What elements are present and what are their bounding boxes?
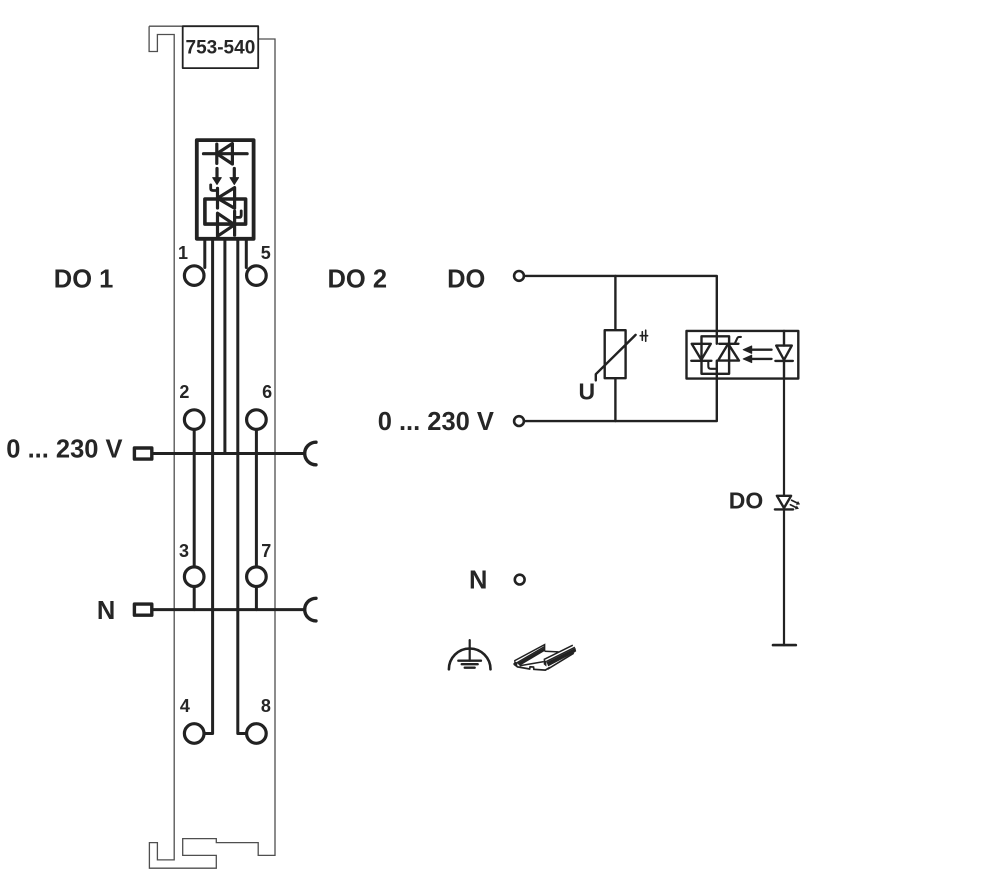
svg-text:U: U — [579, 378, 596, 404]
svg-text:DO 2: DO 2 — [328, 266, 388, 294]
N socket arc — [305, 598, 316, 621]
pin wire 1 (box to terminal 1) — [203, 240, 206, 267]
svg-text:2: 2 — [179, 382, 189, 402]
module outline — [149, 26, 275, 868]
svg-text:4: 4 — [180, 696, 190, 716]
thyristor lower: gate — [236, 211, 242, 218]
230V socket arc — [305, 442, 316, 465]
thyristor upper: triangle — [218, 188, 235, 209]
right flange near end cap — [544, 659, 547, 666]
svg-text:DO: DO — [729, 487, 764, 513]
node DO terminal circle — [514, 271, 524, 281]
ground symbol — [449, 640, 491, 669]
wire 0...230V to opto box — [525, 379, 716, 422]
svg-text:753-540: 753-540 — [186, 38, 256, 59]
LED D1 cathode bar — [215, 144, 218, 163]
thyristor left: bar — [691, 360, 711, 362]
varistor RV1 diagonal — [596, 335, 636, 381]
module label box — [183, 26, 259, 68]
status LED light arrows — [790, 500, 797, 507]
left flange outer top edge — [514, 645, 544, 661]
light arrow 1 — [215, 169, 218, 179]
status LED DO triangle — [777, 496, 791, 508]
svg-text:N: N — [469, 567, 487, 595]
right flange brim bottom edge — [548, 653, 574, 669]
triac sub-box (module) — [205, 199, 246, 224]
terminal 7 — [247, 567, 267, 587]
svg-text:5: 5 — [261, 243, 271, 263]
pin wire 3 (box to 230V bus) — [223, 240, 226, 453]
end bar — [773, 644, 796, 647]
thyristor right: triangle — [718, 344, 739, 361]
right flange inner top edge — [544, 645, 573, 659]
svg-text:6: 6 — [262, 382, 272, 402]
svg-text:DO 1: DO 1 — [54, 266, 114, 294]
230V plug symbol — [134, 448, 151, 459]
thyristor right: bar — [719, 343, 738, 345]
wire status LED down — [783, 509, 785, 645]
230V bus wire — [153, 452, 304, 455]
light arrow right 2 — [752, 358, 772, 360]
thyristor upper: bar — [216, 188, 219, 208]
N bus wire — [153, 608, 304, 611]
light arrow 2 — [233, 169, 236, 179]
terminal 2 — [184, 410, 204, 430]
wire varistor branch bottom — [614, 378, 616, 421]
right flange outer top edge — [546, 647, 575, 661]
status LED DO cathode bar — [775, 508, 793, 510]
N plug symbol — [134, 604, 151, 615]
LED D2 cathode bar — [775, 360, 792, 362]
thyristor left: gate — [708, 361, 716, 369]
wire terminal 3 to N bus — [193, 587, 196, 610]
terminal 3 — [184, 567, 204, 587]
left flange dark inner face — [517, 647, 544, 665]
thyristor upper: gate — [211, 185, 218, 191]
LED D1 wire — [204, 152, 248, 155]
pin wire 4 (box to terminal 8) — [238, 240, 246, 733]
thyristor left: triangle — [692, 344, 711, 360]
terminal 5 — [247, 266, 267, 286]
svg-text:7: 7 — [261, 541, 271, 561]
pin wire 5 (box to terminal 5) — [245, 240, 248, 267]
svg-text:0 ... 230 V: 0 ... 230 V — [378, 408, 494, 436]
light arrow right 1 — [752, 349, 772, 351]
varistor U marks — [640, 330, 647, 341]
left flange inner top edge — [517, 647, 545, 663]
wire DO to opto box — [525, 276, 716, 331]
DIN rail symbol — [514, 645, 576, 671]
terminal 4 — [184, 724, 204, 744]
LED D1 triangle — [217, 144, 233, 165]
thyristor lower: triangle — [218, 213, 235, 236]
triac sub-box right — [702, 336, 730, 374]
wire through opto box — [716, 331, 718, 379]
svg-text:N: N — [97, 597, 115, 625]
svg-text:1: 1 — [178, 243, 188, 263]
svg-text:0 ... 230 V: 0 ... 230 V — [6, 436, 122, 464]
wire terminal 6 to terminal 7 — [255, 429, 258, 567]
thyristor right: gate — [735, 337, 741, 344]
optocoupler U2 box — [687, 331, 799, 379]
svg-text:DO: DO — [447, 266, 485, 294]
node N circle right — [515, 575, 525, 585]
opto-triac U1 box (module) — [197, 140, 254, 239]
LED D2 triangle — [776, 346, 792, 360]
wire varistor branch top — [614, 276, 616, 330]
right flange dark outer face — [547, 648, 577, 667]
svg-text:8: 8 — [261, 696, 271, 716]
rail near profile with notch — [514, 663, 550, 670]
thyristor lower: bar — [233, 211, 236, 235]
varistor RV1 body — [605, 330, 626, 378]
wire terminal 2 to terminal 3 — [193, 429, 196, 567]
svg-text:3: 3 — [179, 541, 189, 561]
floor near edge — [520, 662, 544, 666]
terminal 1 — [184, 266, 204, 286]
channel far edge — [545, 650, 559, 653]
node 0...230V terminal circle — [514, 416, 524, 426]
terminal 8 — [247, 724, 267, 744]
terminal 6 — [247, 410, 267, 430]
wire opto box to status LED — [783, 379, 785, 496]
wire terminal 7 to N bus — [255, 587, 258, 610]
left flange near end cap — [514, 661, 517, 667]
pin wire 2 (box to terminal 4) — [205, 240, 212, 733]
wire LED D2 vertical — [783, 331, 785, 379]
